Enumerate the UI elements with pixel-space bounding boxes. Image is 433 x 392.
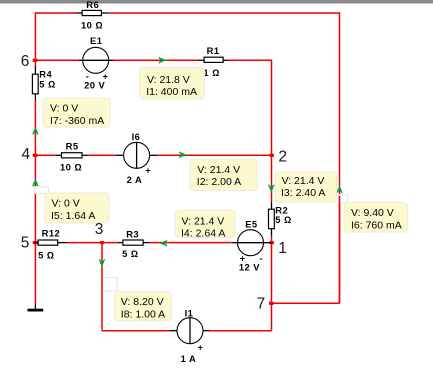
green arrow up at R4 below xyxy=(33,127,39,134)
green arrow up left I5 xyxy=(33,179,39,186)
green arrow right at row2 xyxy=(159,57,166,63)
svg-text:5: 5 xyxy=(21,235,30,252)
wire far right vertical xyxy=(339,12,341,303)
svg-text:E1: E1 xyxy=(90,35,102,46)
wire left vertical upper xyxy=(34,12,36,67)
probe box I1 xyxy=(140,68,205,100)
toolbar strip xyxy=(0,0,433,4)
svg-text:V: 21.4 V: V: 21.4 V xyxy=(182,216,225,228)
wire mid vertical lower xyxy=(271,236,273,331)
junction node 6 xyxy=(33,59,38,62)
wire bottom left of I1 xyxy=(102,330,170,332)
voltage source E1 xyxy=(79,35,113,90)
wire row4 R12 to R3 xyxy=(67,242,118,244)
svg-text:2 A: 2 A xyxy=(127,174,143,185)
voltage source E5 xyxy=(232,219,271,273)
svg-text:R3: R3 xyxy=(126,229,139,240)
junction node 1 xyxy=(270,241,274,244)
probe box I7 xyxy=(43,98,110,127)
svg-text:V: 9.40 V: V: 9.40 V xyxy=(351,207,394,219)
svg-text:I3: 2.40 A: I3: 2.40 A xyxy=(281,187,325,199)
green arrow down at node3 below xyxy=(99,260,105,267)
svg-text:10 Ω: 10 Ω xyxy=(81,19,103,30)
svg-text:1 A: 1 A xyxy=(181,353,197,364)
svg-text:R6: R6 xyxy=(86,0,99,10)
wire node7 horizontal xyxy=(272,302,340,304)
svg-text:1 Ω: 1 Ω xyxy=(203,67,219,78)
svg-text:R5: R5 xyxy=(66,140,79,151)
wire row3 node4 to R5 xyxy=(35,154,55,156)
svg-text:V: 21.8 V: V: 21.8 V xyxy=(147,74,190,86)
green arrow down at node2 below xyxy=(268,185,274,192)
current source I1 xyxy=(170,308,210,364)
wire top left segment xyxy=(35,12,75,14)
wire row2 node6 to E1 xyxy=(35,59,79,61)
svg-text:I2: 2.00 A: I2: 2.00 A xyxy=(197,176,241,188)
junction node 3 xyxy=(100,241,104,244)
svg-text:20 V: 20 V xyxy=(84,79,105,90)
wire row2 E1 to R1 xyxy=(113,59,199,61)
svg-text:3: 3 xyxy=(95,221,104,238)
svg-text:10 Ω: 10 Ω xyxy=(60,161,82,172)
svg-text:4: 4 xyxy=(22,146,31,163)
svg-text:5 Ω: 5 Ω xyxy=(39,78,55,89)
svg-text:6: 6 xyxy=(21,53,30,70)
current source I6 xyxy=(116,131,158,185)
green arrow left at R3 right xyxy=(160,240,167,246)
wire bottom right of I1 xyxy=(210,330,272,332)
ground xyxy=(28,304,44,312)
svg-text:I6: 760 mA: I6: 760 mA xyxy=(351,219,402,231)
svg-text:5 Ω: 5 Ω xyxy=(38,250,54,261)
junction node 2 xyxy=(270,154,274,157)
probe box I6 right xyxy=(344,203,408,233)
svg-text:I7: -360 mA: I7: -360 mA xyxy=(50,115,104,127)
svg-text:I6: I6 xyxy=(132,131,141,142)
svg-text:2: 2 xyxy=(278,148,287,165)
svg-text:+: + xyxy=(145,166,150,176)
svg-text:5 Ω: 5 Ω xyxy=(275,214,291,225)
resistor R6 xyxy=(76,0,109,30)
wire row2 R1 to corner xyxy=(229,59,272,61)
svg-text:12 V: 12 V xyxy=(239,262,260,273)
wire row3 R5 to I6 xyxy=(88,154,116,156)
svg-text:I1: 400 mA: I1: 400 mA xyxy=(146,86,197,98)
svg-text:5 Ω: 5 Ω xyxy=(122,248,138,259)
svg-text:V: 0 V: V: 0 V xyxy=(52,198,80,210)
svg-text:V: 21.4 V: V: 21.4 V xyxy=(282,175,325,187)
probe box I3 xyxy=(275,172,337,202)
svg-text:1: 1 xyxy=(278,240,287,257)
wire row4 R3 to E5 xyxy=(150,242,233,244)
wire left vertical lower xyxy=(34,101,36,303)
svg-text:E5: E5 xyxy=(245,219,257,230)
resistor R5 xyxy=(55,140,87,172)
wire mid vertical upper xyxy=(271,60,273,202)
green arrow up at far right xyxy=(337,186,343,193)
svg-text:V: 0 V: V: 0 V xyxy=(50,103,78,115)
probe box I2 xyxy=(190,159,258,191)
svg-text:V: 21.4 V: V: 21.4 V xyxy=(197,164,240,176)
wire redraw over fragment xyxy=(339,196,341,303)
probe box I5 xyxy=(45,193,109,223)
wire row3 I6 to node2 xyxy=(157,154,271,156)
svg-text:V: 8.20 V: V: 8.20 V xyxy=(121,296,164,308)
svg-text:R12: R12 xyxy=(42,228,61,239)
svg-text:I8: 1.00 A: I8: 1.00 A xyxy=(121,308,165,320)
junction node 5 xyxy=(33,241,38,244)
svg-text:R1: R1 xyxy=(207,45,220,56)
svg-text:+: + xyxy=(198,343,203,353)
green arrow right at row3 xyxy=(179,152,186,158)
svg-text:7: 7 xyxy=(257,296,266,313)
junction node 7 xyxy=(269,302,274,305)
svg-text:I4: 2.64 A: I4: 2.64 A xyxy=(181,228,225,240)
resistor R2 xyxy=(269,202,292,236)
junction node 4 xyxy=(33,154,38,157)
resistor R3 xyxy=(118,229,150,259)
probe box I4 xyxy=(175,211,235,240)
white probe fragment near I8 xyxy=(102,277,117,291)
svg-text:I5: 1.64 A: I5: 1.64 A xyxy=(51,210,95,222)
wire top right segment xyxy=(108,12,339,14)
white probe fragment near I5 xyxy=(34,187,48,194)
wire node3 vertical xyxy=(101,243,103,331)
probe box I8 xyxy=(114,292,171,321)
white probe fragment near I6 right xyxy=(338,195,347,204)
resistor R4 xyxy=(32,67,55,102)
svg-text:I1: I1 xyxy=(185,308,194,319)
resistor R1 xyxy=(198,45,229,78)
resistor R12 xyxy=(35,228,67,261)
